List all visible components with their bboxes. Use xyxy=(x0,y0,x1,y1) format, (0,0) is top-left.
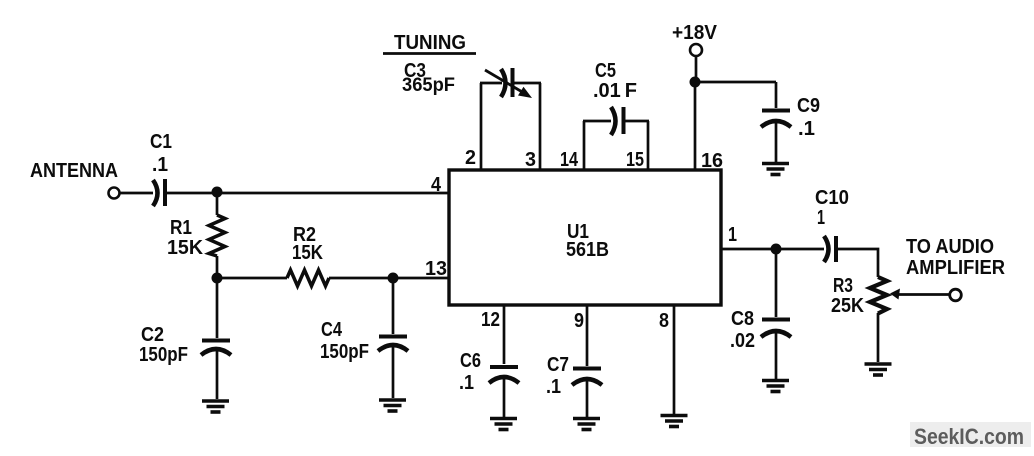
wire: +18V terminal to node xyxy=(695,56,698,82)
node: junction antenna line / R1 xyxy=(212,187,223,198)
svg-text:561B: 561B xyxy=(566,239,609,261)
watermark SeekIC.com xyxy=(910,422,1031,447)
svg-text:C10: C10 xyxy=(815,187,849,209)
wire: C1 to IC pin 4 xyxy=(166,192,449,195)
wire: C2 to ground xyxy=(216,351,219,399)
svg-text:150pF: 150pF xyxy=(139,344,188,366)
capacitor C3 (variable, tuning) xyxy=(501,68,513,97)
svg-text:2: 2 xyxy=(465,147,476,169)
capacitor C9 xyxy=(761,111,791,128)
wire: C7 to ground xyxy=(586,380,589,417)
wire: R3 to ground xyxy=(877,313,880,362)
ground (C2) xyxy=(202,401,229,412)
wire: C3 loop top left xyxy=(480,82,502,85)
wire: pin 16 stub to +18V node xyxy=(694,82,697,170)
wire: C9 to ground xyxy=(775,123,778,162)
wire: pin 3 stub xyxy=(539,83,542,170)
svg-text:R1: R1 xyxy=(170,217,192,239)
ground (pin 8) xyxy=(661,416,688,427)
wire: R2 to junction at C4 xyxy=(329,277,393,280)
svg-text:AMPLIFIER: AMPLIFIER xyxy=(906,257,1006,279)
ground (C4) xyxy=(379,400,406,411)
svg-text:SeekIC.com: SeekIC.com xyxy=(914,424,1024,449)
svg-text:C9: C9 xyxy=(797,95,820,117)
capacitor C2 xyxy=(201,341,231,356)
wire: pin 2 stub xyxy=(480,83,483,170)
svg-text:14: 14 xyxy=(560,149,579,171)
wiper arrow of R3 xyxy=(898,293,950,296)
capacitor C7 xyxy=(572,369,602,386)
svg-text:C2: C2 xyxy=(141,324,164,346)
wire: junction down to R1 xyxy=(216,193,219,215)
ground (C7) xyxy=(573,419,600,430)
svg-text:13: 13 xyxy=(425,258,447,280)
wire: pin 9 down to C7 xyxy=(586,305,589,366)
capacitor C10 xyxy=(824,236,836,262)
svg-text:R3: R3 xyxy=(833,275,853,297)
resistor R1 xyxy=(209,215,225,256)
svg-text:15K: 15K xyxy=(292,242,323,264)
svg-text:TO AUDIO: TO AUDIO xyxy=(906,236,994,258)
svg-text:C5: C5 xyxy=(595,60,616,82)
svg-text:C8: C8 xyxy=(731,308,754,330)
wire: antenna terminal to C1 xyxy=(120,192,153,195)
wire: junction down to C8 xyxy=(775,249,778,317)
svg-text:15: 15 xyxy=(626,149,644,171)
svg-text:C6: C6 xyxy=(460,350,481,372)
wire: C4 junction down to C4 xyxy=(392,278,395,334)
svg-text:25K: 25K xyxy=(831,295,864,317)
svg-text:C7: C7 xyxy=(547,354,569,376)
node: +18V junction xyxy=(690,77,701,88)
ground (C9) xyxy=(762,164,789,175)
svg-text:.1: .1 xyxy=(546,376,561,398)
svg-text:3: 3 xyxy=(525,149,536,171)
wire: C5 loop top left xyxy=(583,120,611,123)
svg-text:.1: .1 xyxy=(798,118,815,140)
wire: C5 loop top right xyxy=(624,120,649,123)
node: junction pin1 / C8 xyxy=(771,244,782,255)
svg-text:8: 8 xyxy=(659,310,669,332)
wire: pin 1 to C10 xyxy=(721,248,824,251)
wire: down to C9 xyxy=(775,82,778,108)
svg-text:C1: C1 xyxy=(150,131,172,153)
capacitor C6 xyxy=(489,367,519,383)
ground (C8) xyxy=(762,381,789,392)
svg-text:365pF: 365pF xyxy=(402,75,455,96)
wire: pin 8 down to ground xyxy=(673,305,676,414)
wire: pin 15 stub xyxy=(647,121,650,170)
wire: pin 12 down to C6 xyxy=(503,305,506,364)
arrow of variable capacitor C3 xyxy=(485,70,524,93)
op-amp U1 IC body xyxy=(449,170,721,305)
ground (C6) xyxy=(490,419,517,430)
svg-text:16: 16 xyxy=(701,150,723,172)
svg-text:C4: C4 xyxy=(321,319,343,341)
capacitor C4 xyxy=(378,337,408,352)
svg-text:.1: .1 xyxy=(152,154,168,176)
svg-text:1: 1 xyxy=(728,224,737,246)
capacitor C5 xyxy=(611,107,624,135)
capacitor C8 xyxy=(761,320,791,338)
wire: C6 to ground xyxy=(503,378,506,417)
terminal: ANTENNA input xyxy=(109,188,120,199)
svg-text:+18V: +18V xyxy=(672,22,718,44)
node: junction R1 / R2 / C2 xyxy=(212,273,223,284)
svg-text:150pF: 150pF xyxy=(320,341,369,363)
ground (R3) xyxy=(865,364,892,375)
node: junction R2 / C4 / pin 13 xyxy=(388,273,399,284)
wire: junction to R2 xyxy=(217,277,287,280)
wire: C3 loop top right xyxy=(513,82,541,85)
svg-text:.02: .02 xyxy=(730,330,755,352)
underline of TUNING xyxy=(383,52,476,55)
wire: junction down to C2 xyxy=(216,278,219,338)
svg-text:12: 12 xyxy=(481,309,500,331)
svg-text:TUNING: TUNING xyxy=(394,32,466,54)
wire: R1 to lower junction xyxy=(216,256,219,278)
wire: C10 to R3 top corner xyxy=(837,249,878,277)
capacitor C1 xyxy=(153,179,165,206)
wire: +18V node to C9 xyxy=(695,81,776,84)
resistor R3 (potentiometer) xyxy=(870,277,887,314)
svg-text:.1: .1 xyxy=(459,372,474,394)
svg-text:15K: 15K xyxy=(167,237,204,259)
resistor R2 xyxy=(287,270,329,286)
terminal: +18V supply xyxy=(690,44,702,56)
wire: C4 to ground xyxy=(392,347,395,398)
svg-text:4: 4 xyxy=(431,174,442,196)
wire: C8 to ground xyxy=(775,332,778,379)
svg-text:1: 1 xyxy=(817,207,825,229)
wire: junction to IC pin 13 xyxy=(393,277,449,280)
wire: pin 14 stub xyxy=(583,121,586,170)
terminal: audio output xyxy=(950,289,962,301)
svg-text:9: 9 xyxy=(574,310,584,332)
svg-text:.01 F: .01 F xyxy=(593,80,637,102)
svg-text:ANTENNA: ANTENNA xyxy=(30,160,118,182)
